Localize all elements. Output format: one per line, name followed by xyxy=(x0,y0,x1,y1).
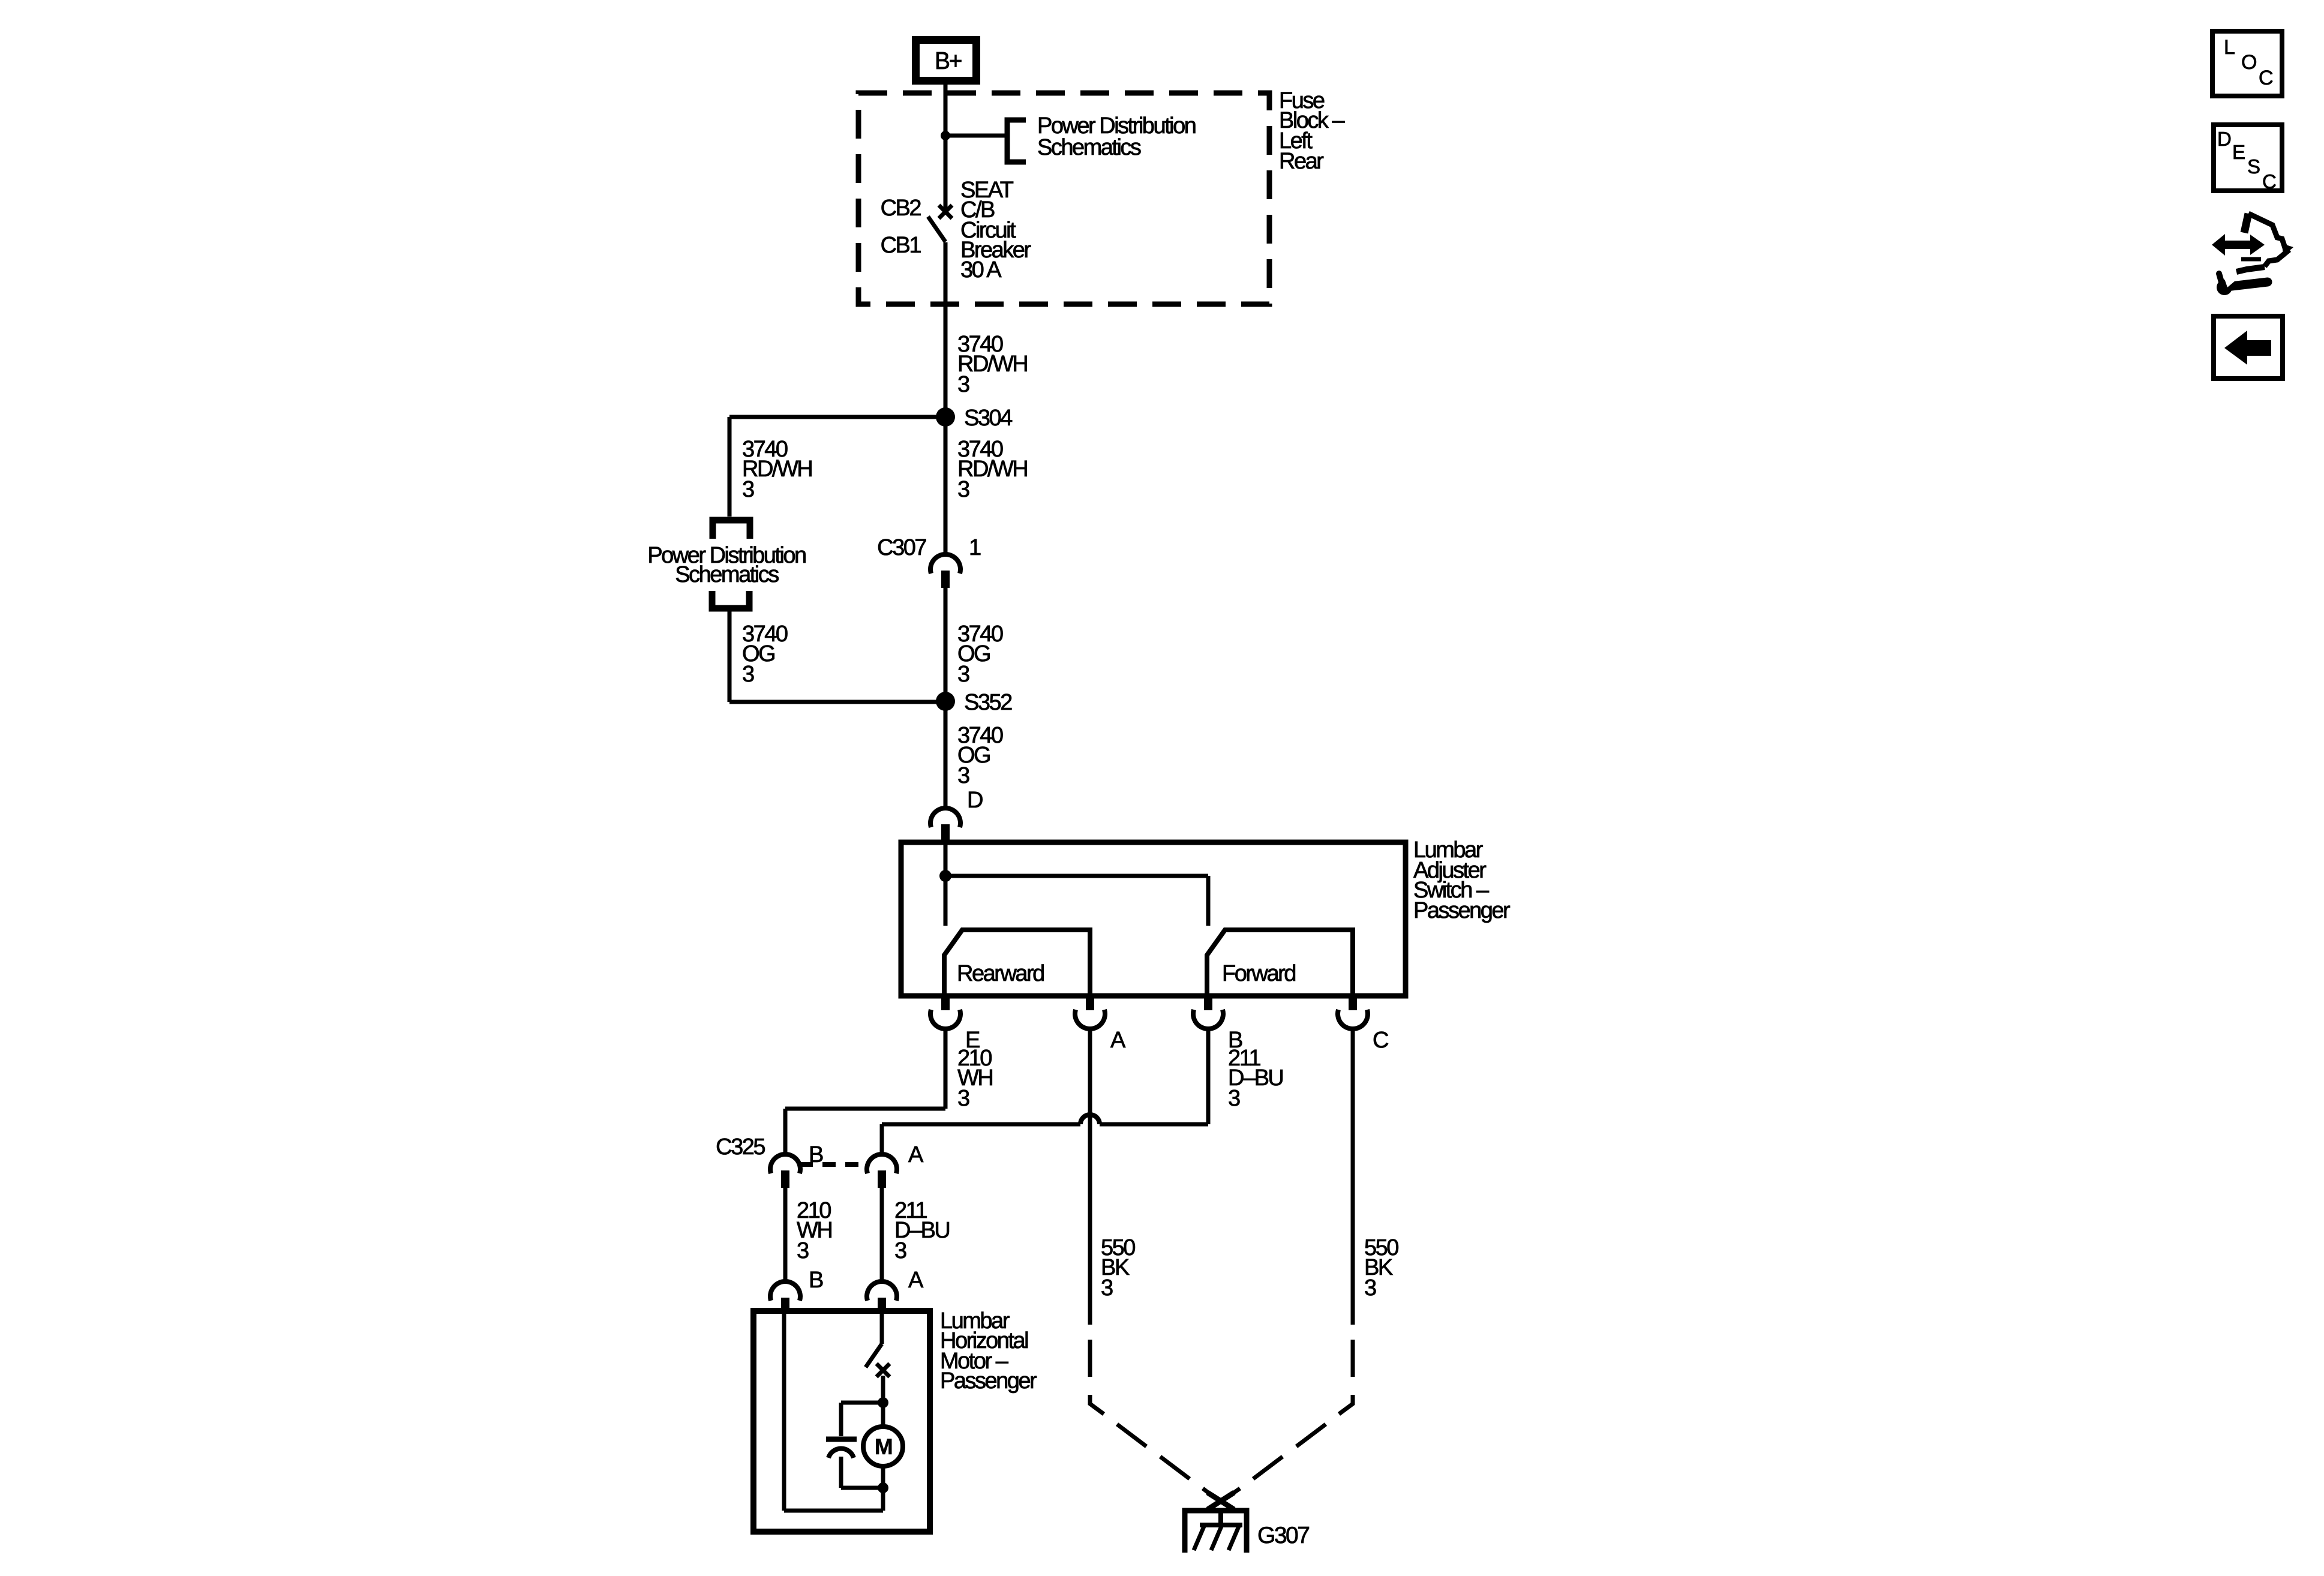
svg-text:S304: S304 xyxy=(964,406,1013,431)
svg-text:30 A: 30 A xyxy=(960,257,1002,283)
svg-text:D: D xyxy=(967,788,983,813)
svg-text:CB2: CB2 xyxy=(881,196,921,221)
svg-text:3: 3 xyxy=(957,662,969,687)
svg-text:3: 3 xyxy=(742,477,754,502)
svg-text:C: C xyxy=(2259,67,2273,89)
svg-text:B: B xyxy=(809,1268,823,1293)
svg-text:Rearward: Rearward xyxy=(957,961,1044,986)
svg-text:3: 3 xyxy=(1228,1086,1240,1111)
svg-text:Rear: Rear xyxy=(1279,149,1324,174)
svg-text:D: D xyxy=(2217,128,2231,150)
svg-text:3: 3 xyxy=(894,1238,906,1263)
svg-text:Schematics: Schematics xyxy=(1037,135,1141,160)
svg-text:Passenger: Passenger xyxy=(940,1368,1037,1394)
svg-text:C: C xyxy=(1373,1028,1388,1053)
svg-text:3: 3 xyxy=(957,763,969,788)
svg-text:C: C xyxy=(2262,170,2276,193)
svg-text:S: S xyxy=(2247,155,2260,178)
svg-text:3: 3 xyxy=(1101,1275,1113,1301)
svg-text:Schematics: Schematics xyxy=(675,562,779,587)
svg-text:S352: S352 xyxy=(964,690,1012,715)
svg-text:3: 3 xyxy=(797,1238,809,1263)
svg-text:M: M xyxy=(875,1434,892,1459)
svg-text:A: A xyxy=(908,1268,924,1293)
svg-text:E: E xyxy=(2232,141,2245,163)
svg-text:Passenger: Passenger xyxy=(1413,898,1511,923)
svg-text:C307: C307 xyxy=(877,535,926,560)
svg-text:3: 3 xyxy=(957,1086,969,1111)
svg-text:3: 3 xyxy=(1364,1275,1376,1301)
svg-text:1: 1 xyxy=(969,535,981,560)
svg-text:G307: G307 xyxy=(1257,1523,1309,1548)
svg-text:B+: B+ xyxy=(935,47,962,74)
svg-text:A: A xyxy=(908,1142,924,1167)
svg-text:L: L xyxy=(2224,36,2235,59)
svg-text:B: B xyxy=(809,1142,823,1167)
svg-text:CB1: CB1 xyxy=(881,233,921,258)
svg-text:3: 3 xyxy=(957,372,969,397)
svg-text:3: 3 xyxy=(742,662,754,687)
svg-text:O: O xyxy=(2241,51,2256,74)
svg-text:A: A xyxy=(1110,1028,1126,1053)
svg-text:C325: C325 xyxy=(716,1134,765,1160)
svg-text:3: 3 xyxy=(957,477,969,502)
svg-text:Forward: Forward xyxy=(1222,961,1295,986)
